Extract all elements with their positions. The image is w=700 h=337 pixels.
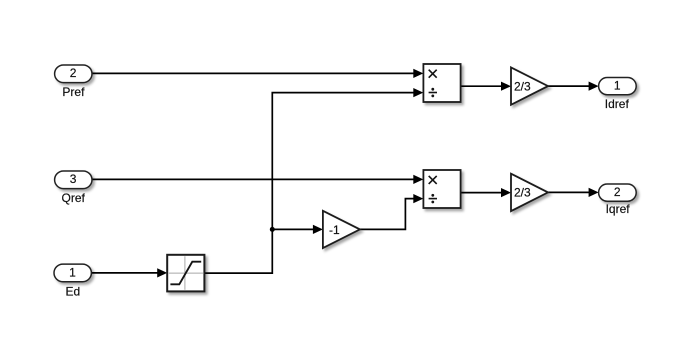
svg-text:Ed: Ed: [65, 285, 80, 299]
svg-text:Pref: Pref: [62, 85, 85, 99]
svg-text:1: 1: [614, 79, 621, 93]
svg-text:Idref: Idref: [605, 97, 630, 111]
svg-text:3: 3: [70, 172, 77, 186]
svg-text:1: 1: [69, 265, 76, 279]
svg-text:Qref: Qref: [62, 191, 86, 205]
svg-text:Iqref: Iqref: [606, 202, 631, 216]
svg-text:2: 2: [614, 185, 621, 199]
svg-text:-1: -1: [329, 223, 340, 237]
svg-text:2: 2: [70, 66, 77, 80]
svg-text:2/3: 2/3: [514, 79, 531, 93]
svg-text:2/3: 2/3: [514, 186, 531, 200]
